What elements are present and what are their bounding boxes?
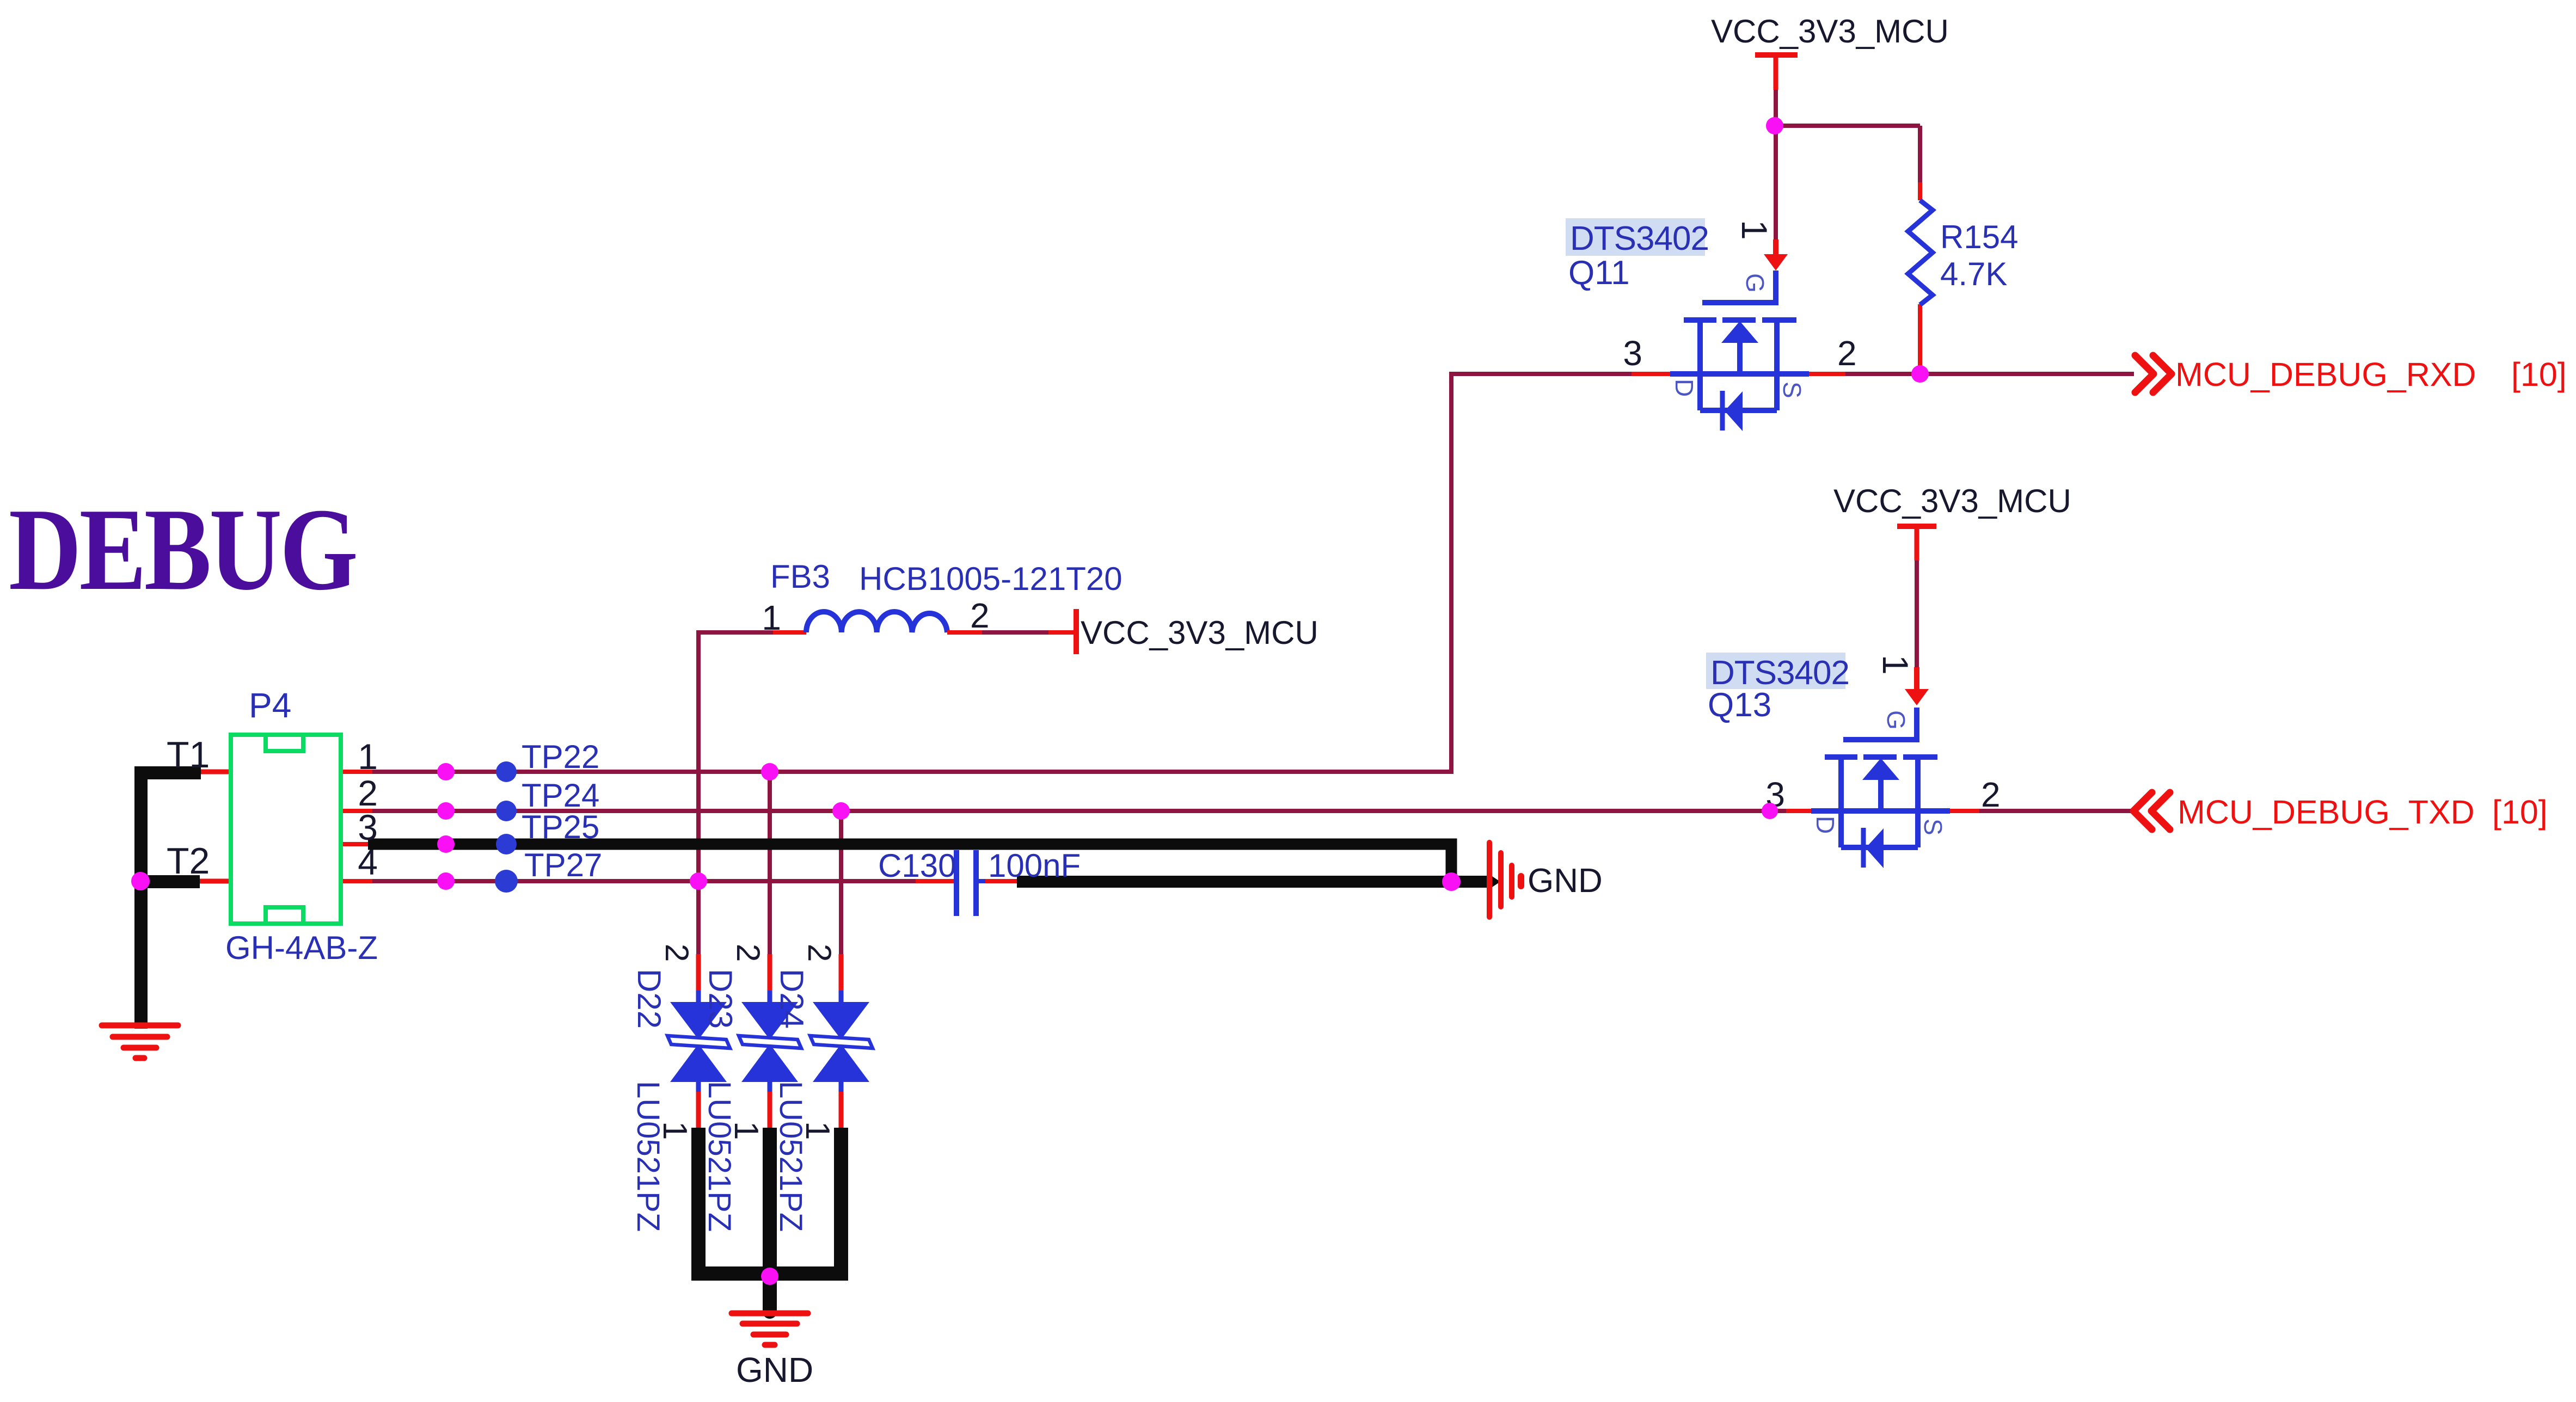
wire vertical line B from TP22 row to D23 bbox=[768, 772, 772, 956]
junction dot T2 left bbox=[131, 872, 150, 890]
power symbol VCC_3V3_MCU at FB3 output bbox=[1074, 609, 1079, 654]
inductor FB3 ferrite bead bbox=[806, 612, 947, 632]
svg-text:D23: D23 bbox=[702, 969, 739, 1029]
svg-text:GND: GND bbox=[736, 1350, 813, 1389]
svg-text:1: 1 bbox=[762, 598, 781, 637]
wire vertical line C from TP24 row to D24 bbox=[839, 811, 843, 956]
red stubs T1 T2 to connector bbox=[200, 772, 231, 881]
ground symbol right bbox=[1489, 843, 1521, 917]
thick black ground bus after C130 bbox=[1017, 876, 1488, 888]
svg-text:GND: GND bbox=[1528, 862, 1603, 900]
wire Q11 source to junction and RXD chevron bbox=[1845, 372, 2134, 376]
junction dot on TP22 row at x819 bbox=[437, 763, 455, 780]
capacitor C130 bbox=[954, 850, 985, 916]
svg-text:TP25: TP25 bbox=[522, 809, 599, 845]
svg-text:[10]: [10] bbox=[2492, 794, 2548, 831]
ground symbol bottom bbox=[732, 1313, 808, 1345]
svg-text:LU0521PZ: LU0521PZ bbox=[630, 1081, 666, 1232]
svg-text:1: 1 bbox=[358, 736, 378, 777]
red stub FB3 pin2 bbox=[947, 630, 982, 635]
svg-text:FB3: FB3 bbox=[770, 558, 830, 595]
svg-text:D24: D24 bbox=[774, 969, 810, 1029]
svg-text:TP22: TP22 bbox=[522, 739, 599, 775]
svg-text:TP24: TP24 bbox=[522, 777, 599, 814]
ground symbol left bbox=[102, 1025, 178, 1058]
highlight and part number DTS3402 of Q13 bbox=[1706, 653, 1845, 689]
junction dot on TP25 row at x819 bbox=[437, 835, 455, 853]
gate drive arrow into Q11 pin1 bbox=[1764, 239, 1788, 270]
svg-text:1: 1 bbox=[799, 1121, 836, 1140]
wire net TXD from Q13 source to chevron bbox=[1979, 809, 2133, 813]
wire net TP27 row from P4 pin4 to C130 bbox=[372, 879, 916, 883]
TVS diode D24 bbox=[810, 991, 873, 1092]
junction dot on TP24 row at x819 bbox=[437, 802, 455, 820]
svg-text:2: 2 bbox=[1981, 775, 2001, 814]
connector P4 body GH-4AB-Z bbox=[231, 735, 341, 924]
svg-text:VCC_3V3_MCU: VCC_3V3_MCU bbox=[1833, 483, 2071, 519]
svg-text:2: 2 bbox=[730, 944, 766, 962]
svg-text:2: 2 bbox=[659, 944, 695, 962]
svg-text:2: 2 bbox=[801, 944, 838, 962]
svg-text:DEBUG: DEBUG bbox=[9, 484, 356, 615]
red stubs Q13 pins 3 and 2 bbox=[1786, 809, 1979, 813]
svg-text:DTS3402: DTS3402 bbox=[1570, 220, 1709, 257]
red stub FB3 pin1 bbox=[773, 630, 806, 635]
MOSFET Q11 DTS3402 bbox=[1670, 270, 1809, 431]
junction dot TP27 to D22 branch bbox=[690, 872, 707, 890]
svg-text:1: 1 bbox=[1734, 220, 1775, 240]
power symbol VCC_3V3_MCU above Q11 bbox=[1755, 52, 1798, 90]
svg-text:TP27: TP27 bbox=[524, 847, 602, 883]
svg-text:LU0521PZ: LU0521PZ bbox=[773, 1081, 808, 1232]
test point TP25 dot bbox=[496, 834, 517, 854]
black stem to bottom ground bbox=[763, 1274, 777, 1312]
junction dot Q13 drain bbox=[1762, 803, 1778, 819]
svg-text:D22: D22 bbox=[631, 969, 667, 1029]
junction dot TP24 to D24 branch bbox=[832, 802, 850, 820]
svg-text:C130: C130 bbox=[878, 847, 956, 884]
svg-text:100nF: 100nF bbox=[988, 847, 1081, 884]
red stubs on TVS diode lines bbox=[698, 954, 841, 992]
red stubs Q11 pins 3 and 2 bbox=[1632, 372, 1845, 376]
TVS diode D23 bbox=[739, 991, 801, 1092]
svg-text:D: D bbox=[1670, 379, 1698, 397]
svg-text:Q13: Q13 bbox=[1708, 686, 1771, 724]
svg-text:GH-4AB-Z: GH-4AB-Z bbox=[225, 930, 378, 966]
test point TP22 dot bbox=[496, 761, 517, 782]
svg-text:T1: T1 bbox=[167, 734, 210, 776]
svg-text:D: D bbox=[1811, 816, 1839, 834]
junction dot Q11 source R154 bbox=[1911, 365, 1929, 383]
thick black cathode bars of TVS diodes to ground rail bbox=[698, 1128, 841, 1279]
thick black net pin3 row to GND corner bbox=[368, 844, 1451, 877]
resistor R154 bbox=[1908, 200, 1933, 305]
junction dot on TP27 row at x819 bbox=[437, 872, 455, 890]
svg-text:VCC_3V3_MCU: VCC_3V3_MCU bbox=[1711, 13, 1949, 50]
svg-text:1: 1 bbox=[1875, 655, 1916, 675]
svg-text:3: 3 bbox=[358, 807, 378, 847]
wire FB3 input vertical line A bbox=[698, 632, 773, 956]
thick black wire T1/T2 to left ground bbox=[141, 773, 201, 1029]
svg-text:MCU_DEBUG_TXD: MCU_DEBUG_TXD bbox=[2178, 794, 2475, 831]
wire net TP22 row from P4 pin1 up to Q11 drain bbox=[372, 374, 1632, 772]
input chevron MCU_DEBUG_TXD bbox=[2133, 792, 2170, 829]
svg-text:1: 1 bbox=[656, 1121, 694, 1140]
svg-text:3: 3 bbox=[1623, 334, 1642, 373]
svg-text:R154: R154 bbox=[1940, 219, 2018, 255]
wire VCC_3V3_MCU to Q11 gate and R154 bbox=[1776, 89, 1920, 239]
svg-text:S: S bbox=[1778, 382, 1806, 398]
svg-text:2: 2 bbox=[1837, 334, 1857, 373]
wire net TXD row from P4 pin2 to Q13 drain bbox=[372, 809, 1786, 813]
svg-text:2: 2 bbox=[970, 596, 990, 635]
red stubs C130 bbox=[916, 879, 1017, 883]
svg-text:4.7K: 4.7K bbox=[1940, 256, 2007, 292]
svg-text:Q11: Q11 bbox=[1568, 254, 1630, 292]
output chevron MCU_DEBUG_RXD bbox=[2135, 355, 2172, 392]
svg-text:G: G bbox=[1741, 273, 1769, 293]
wire FB3 output to VCC bar bbox=[982, 630, 1048, 635]
black wire arrow tip at right GND bbox=[1487, 873, 1500, 890]
svg-text:MCU_DEBUG_RXD: MCU_DEBUG_RXD bbox=[2175, 356, 2476, 393]
svg-text:4: 4 bbox=[358, 842, 378, 882]
svg-text:S: S bbox=[1919, 819, 1947, 835]
red pin stubs of connector P4 bbox=[341, 772, 372, 881]
test point TP24 dot bbox=[496, 801, 517, 821]
TVS diode D22 bbox=[667, 991, 730, 1092]
junction dot TP22 to D23 branch bbox=[761, 763, 778, 780]
svg-text:HCB1005-121T20: HCB1005-121T20 bbox=[859, 561, 1123, 597]
svg-text:VCC_3V3_MCU: VCC_3V3_MCU bbox=[1081, 614, 1318, 651]
power symbol VCC_3V3_MCU above Q13 bbox=[1897, 524, 1936, 561]
svg-text:P4: P4 bbox=[249, 686, 291, 725]
svg-text:1: 1 bbox=[727, 1121, 765, 1140]
svg-text:LU0521PZ: LU0521PZ bbox=[702, 1081, 737, 1232]
wire VCC_3V3_MCU to Q13 gate bbox=[1915, 559, 1919, 667]
svg-text:T2: T2 bbox=[167, 840, 210, 882]
MOSFET Q13 DTS3402 bbox=[1811, 708, 1950, 868]
junction dot VCC split above Q11 bbox=[1766, 117, 1783, 134]
svg-text:G: G bbox=[1882, 710, 1910, 730]
junction dot ground bus corner bbox=[1442, 872, 1461, 891]
svg-text:[10]: [10] bbox=[2511, 356, 2567, 393]
thick black ground rail under diodes bbox=[691, 1266, 848, 1281]
test point TP27 dot bbox=[495, 870, 518, 893]
highlight and part number DTS3402 of Q11 bbox=[1566, 218, 1705, 256]
gate drive arrow into Q13 pin1 bbox=[1905, 667, 1929, 705]
red segments of R154 leads bbox=[1918, 182, 1922, 371]
thick black wire T2 stub bbox=[141, 875, 200, 888]
junction dot diode ground rail bbox=[761, 1268, 778, 1285]
